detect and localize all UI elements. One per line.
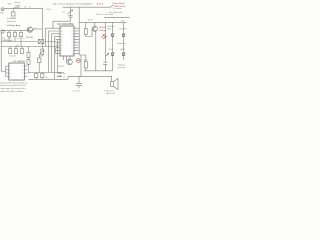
capacitor C7	[76, 77, 82, 89]
svg-text:1u: 1u	[23, 38, 25, 40]
transistor Q2	[92, 26, 97, 31]
wire Q1 collector	[33, 28, 43, 30]
label R1	[29, 7, 31, 9]
wire IC U1 left bus	[5, 66, 7, 77]
label mic	[0, 12, 4, 14]
IC U2 right pins	[74, 28, 79, 53]
svg-text:10u: 10u	[62, 12, 65, 14]
LED D2	[123, 23, 125, 40]
capacitor C2a plates	[69, 15, 73, 17]
connector node	[1, 30, 4, 33]
label LED3	[109, 49, 113, 51]
label out2	[63, 75, 66, 78]
label Q3	[58, 66, 64, 68]
junction dots	[9, 7, 115, 77]
LED D3	[112, 40, 114, 71]
indicator LED red	[76, 59, 80, 63]
crystal X1	[38, 39, 43, 43]
potentiometer VR2 arrow	[67, 10, 73, 14]
title	[53, 2, 92, 5]
svg-text:LED4: LED4	[120, 49, 124, 51]
wire IC2 bottom stubs	[64, 56, 71, 62]
resistor R10	[21, 47, 23, 49]
wire Q2 collector	[94, 23, 96, 27]
wire pin4 L	[49, 31, 56, 73]
IC U1 left pins	[6, 66, 9, 77]
transistor Q3	[67, 59, 73, 65]
capacitor C6	[103, 62, 107, 71]
wire lower rail	[84, 70, 113, 72]
switch SW1	[15, 6, 19, 8]
label Q1	[34, 28, 36, 30]
resistor R4	[9, 47, 11, 49]
wire rail 9V top	[104, 17, 130, 19]
resistor R6	[15, 47, 17, 49]
label C7	[72, 91, 79, 93]
LED emission arrows (red)	[102, 35, 107, 40]
wire bottom rail	[68, 77, 112, 80]
label C1	[11, 18, 17, 20]
label R values	[2, 38, 24, 40]
wire amp rail	[1, 30, 34, 32]
label speaker	[104, 90, 115, 96]
wire top-right rail	[63, 6, 111, 8]
svg-text:LED1: LED1	[107, 29, 111, 31]
wire mid vertical	[104, 23, 106, 62]
IC U2 label	[57, 23, 74, 26]
svg-text:R6 1k: R6 1k	[88, 20, 93, 22]
wire lower mid rail	[1, 46, 58, 48]
resistor R1	[8, 31, 10, 33]
resistor R8	[28, 47, 30, 53]
switch SW2	[110, 5, 114, 7]
label 9V battery	[113, 7, 122, 10]
connector arrow out1	[57, 72, 60, 74]
svg-text:BC548: BC548	[26, 37, 33, 39]
resistor R9	[28, 58, 30, 60]
wire emitter bus	[95, 31, 97, 71]
svg-text:C7 0.1uF: C7 0.1uF	[72, 91, 79, 93]
svg-text:10k 4.7k: 10k 4.7k	[9, 56, 16, 58]
speaker LS1	[111, 77, 113, 82]
IC U1 label	[13, 61, 26, 63]
wire lower-left pin bus	[55, 48, 57, 54]
wire to IC2 pin	[53, 21, 71, 28]
label 9V	[121, 20, 124, 22]
IC U1 body	[9, 63, 24, 80]
LED D4	[123, 40, 125, 60]
svg-text:SW2 On/Off: SW2 On/Off	[115, 6, 126, 8]
title red note	[97, 3, 104, 5]
label R4 value	[9, 56, 16, 58]
caption text block	[0, 81, 27, 92]
label C5	[45, 77, 48, 79]
battery B1 label	[14, 1, 20, 7]
svg-text:4.7k: 4.7k	[17, 38, 20, 40]
label Q1 part	[26, 37, 33, 39]
label SW1	[8, 4, 12, 6]
wire left edge rail	[1, 31, 6, 71]
IC U2 left pins	[56, 28, 61, 53]
label amp stage	[6, 24, 21, 27]
label LED2	[120, 29, 128, 31]
label dashboard	[117, 42, 126, 45]
label power switch (red)	[113, 2, 126, 8]
LED emission arrows row2 (red)	[106, 53, 109, 56]
resistor R7	[79, 55, 86, 62]
IC U1 right pins	[24, 66, 27, 77]
label flashing	[118, 65, 125, 70]
LED D1	[112, 23, 114, 40]
svg-text:SW1: SW1	[8, 4, 12, 6]
resistor R5	[85, 23, 87, 29]
microphone MIC1	[1, 8, 4, 11]
label C2	[17, 6, 27, 8]
svg-text:LEDs on Clock pulses: LEDs on Clock pulses	[96, 14, 114, 16]
wire Q3 collector up	[80, 55, 82, 77]
label condenser mic	[7, 17, 16, 23]
wire right bus down	[78, 7, 80, 22]
label R7	[83, 59, 87, 61]
IC U1 pin labels	[10, 66, 23, 79]
resistor R2	[14, 31, 16, 33]
label LED4	[120, 49, 124, 51]
label VR value	[62, 12, 65, 14]
label C2 value	[46, 9, 52, 11]
label LEDs on clock	[96, 14, 114, 16]
capacitor C3	[38, 56, 40, 58]
IC U2 pin numbers	[61, 28, 74, 55]
resistor R3	[20, 31, 22, 33]
IC U2 body	[60, 26, 74, 56]
wire pin10 L	[57, 39, 59, 72]
wire top-left rail	[4, 7, 42, 9]
label stage2	[3, 40, 13, 42]
wire pin8 L	[55, 37, 56, 80]
svg-text:Red: 2: Red: 2	[97, 3, 104, 5]
wire pin2 L	[46, 28, 56, 46]
label R6	[88, 20, 93, 22]
wire left lower rail2	[29, 78, 69, 80]
transistor Q1	[27, 27, 32, 32]
label cap value	[16, 45, 19, 47]
wire pin6 L	[52, 34, 56, 73]
capacitor C5	[41, 73, 43, 74]
label LED1	[107, 25, 114, 31]
svg-text:100k: 100k	[83, 59, 87, 61]
label Q2 (red)	[99, 27, 106, 32]
label out1	[63, 72, 66, 75]
wire vertical from top rail	[41, 8, 43, 46]
wire rail 9V lower	[79, 22, 126, 24]
label switch note	[109, 11, 123, 14]
wire left lower rail	[29, 72, 65, 74]
wire mid rail	[1, 41, 56, 43]
wire right of IC2	[78, 23, 80, 55]
potentiometer VR1	[41, 47, 43, 50]
connector arrow out2	[57, 75, 60, 77]
svg-text:C2 10u: C2 10u	[46, 9, 52, 11]
svg-text:BC548: BC548	[58, 66, 64, 68]
capacitor C4	[35, 73, 37, 74]
svg-text:9V+: 9V+	[121, 20, 124, 22]
svg-text:Flashing: Flashing	[118, 65, 125, 67]
wire IC2 top feed	[70, 7, 72, 21]
capacitor C1	[12, 8, 14, 12]
